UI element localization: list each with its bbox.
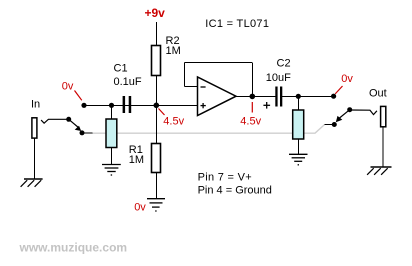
svg-text:Pin 7 = V+: Pin 7 = V+ <box>198 171 252 183</box>
svg-text:IC1 = TL071: IC1 = TL071 <box>205 18 269 30</box>
svg-text:In: In <box>31 99 40 111</box>
svg-text:Pin 4 = Ground: Pin 4 = Ground <box>198 184 272 196</box>
svg-text:0v: 0v <box>134 202 146 214</box>
svg-text:1M: 1M <box>166 45 181 57</box>
svg-text:1M: 1M <box>129 154 144 166</box>
svg-text:4.5v: 4.5v <box>240 115 261 127</box>
svg-text:Out: Out <box>369 88 387 100</box>
svg-text:+9v: +9v <box>145 6 166 20</box>
svg-text:0v: 0v <box>341 73 353 85</box>
svg-text:4.5v: 4.5v <box>163 116 184 128</box>
svg-text:C1: C1 <box>114 63 128 75</box>
svg-text:0v: 0v <box>62 81 74 93</box>
svg-text:0.1uF: 0.1uF <box>114 76 142 88</box>
svg-text:www.muzique.com: www.muzique.com <box>19 240 128 254</box>
svg-text:10uF: 10uF <box>266 72 291 84</box>
svg-text:C2: C2 <box>277 57 291 69</box>
